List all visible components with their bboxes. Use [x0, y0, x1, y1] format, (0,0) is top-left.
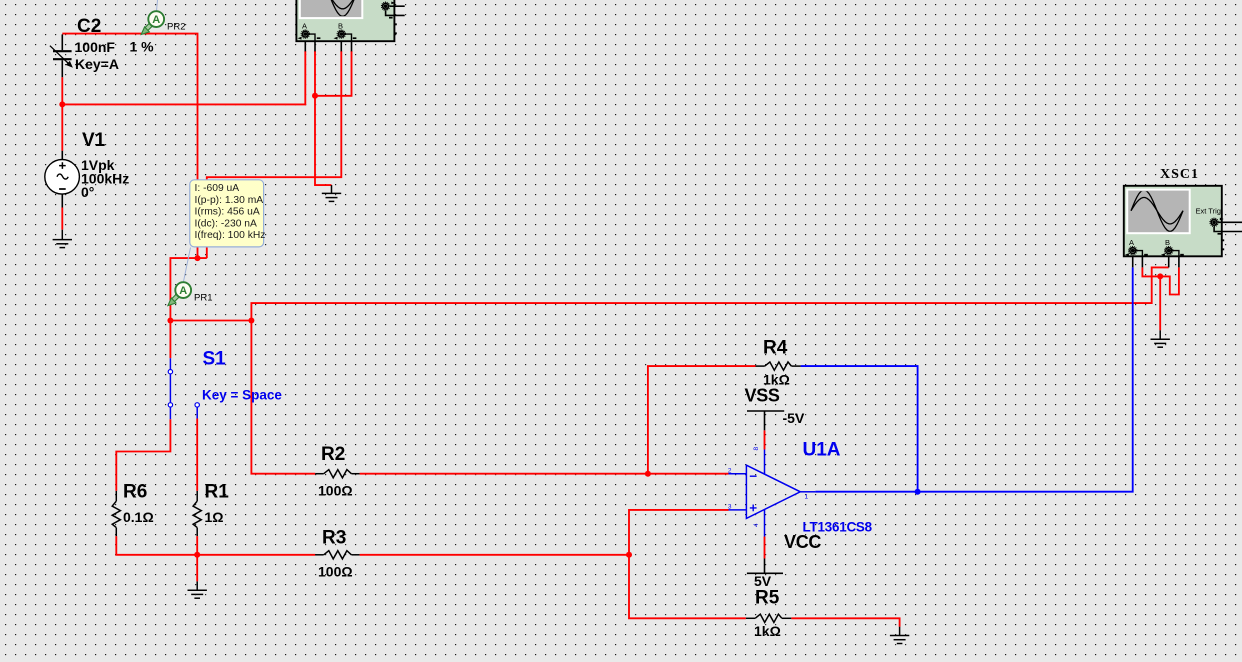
svg-text:3: 3	[728, 504, 732, 511]
svg-text:R6: R6	[123, 481, 147, 502]
svg-text:I(rms): 456 uA: I(rms): 456 uA	[195, 207, 260, 218]
svg-text:100Ω: 100Ω	[318, 563, 353, 579]
svg-text:V1: V1	[82, 130, 106, 151]
svg-text:1Ω: 1Ω	[205, 509, 224, 525]
capacitor C2	[50, 34, 72, 77]
svg-text:R2: R2	[321, 444, 345, 465]
XSC1 terminal B	[1161, 238, 1184, 256]
svg-text:Key = Space: Key = Space	[202, 388, 282, 403]
svg-text:8: 8	[753, 447, 760, 451]
svg-text:R1: R1	[205, 481, 230, 502]
wire XSC1 A- B- tie	[1142, 267, 1179, 294]
capacitor C2 labels	[75, 16, 155, 72]
svg-text:1: 1	[805, 494, 809, 501]
wire S1 right throw to R1	[196, 419, 198, 491]
ground (V1)	[53, 230, 72, 248]
node C2/V1/scope junction	[59, 101, 65, 107]
XSC2 terminal B	[334, 22, 357, 42]
probe PR1 measurement box	[190, 180, 266, 247]
resistor R3	[315, 551, 359, 559]
svg-text:-5V: -5V	[783, 410, 805, 426]
wire XSC1 ground branch	[1159, 276, 1161, 330]
svg-text:A: A	[179, 285, 187, 297]
svg-text:2: 2	[728, 467, 732, 474]
XSC1 pin stubs	[1133, 256, 1179, 267]
svg-text:S1: S1	[203, 348, 227, 369]
wire S1 left throw to R6	[116, 419, 170, 491]
XSC1 terminal A	[1125, 238, 1148, 256]
svg-text:100Ω: 100Ω	[318, 482, 353, 498]
power VSS	[747, 411, 784, 430]
svg-text:B: B	[1165, 238, 1170, 247]
wire long feed to XSC1 B+	[251, 267, 1168, 320]
node op-amp output join (blue)	[915, 489, 921, 495]
node R6/R1 bottom	[194, 552, 200, 558]
probe PR2	[141, 11, 164, 34]
XSC2 pin stubs	[305, 41, 351, 51]
power VCC	[747, 559, 783, 574]
XSC1 right edge nubs	[1222, 240, 1224, 249]
switch S1	[170, 358, 197, 419]
wire R5 to ground	[791, 618, 899, 626]
wire S1 top feed	[169, 321, 171, 359]
oscilloscope XSC1	[1124, 167, 1242, 267]
wire op-amp output to XSC1 A+ (blue)	[815, 267, 1132, 491]
ground (top scope)	[322, 185, 341, 201]
XSC2 terminal A	[298, 22, 321, 42]
resistor R5	[746, 614, 791, 622]
wire node below probe box	[170, 258, 206, 320]
svg-text:XSC1: XSC1	[1160, 167, 1199, 182]
resistor R4	[756, 362, 801, 370]
wire junction row to S1	[170, 320, 251, 322]
source V1 labels	[81, 130, 129, 200]
svg-text:I: -609 uA: I: -609 uA	[195, 183, 240, 194]
wire R3 right	[360, 554, 629, 556]
node below probe box	[195, 255, 201, 261]
XSC1 ext trig terminal	[1210, 218, 1242, 234]
svg-text:100nF: 100nF	[75, 39, 116, 55]
ground (R5)	[890, 627, 909, 644]
probe PR1	[168, 282, 191, 305]
op-amp U1A	[729, 450, 816, 537]
node S1 top left	[167, 318, 173, 324]
svg-text:VSS: VSS	[745, 385, 780, 405]
wire C2 bottom	[61, 77, 63, 104]
wire scope2 A+ to V1 node	[62, 51, 305, 105]
source V1	[45, 151, 80, 208]
wire scope2 B+ return	[207, 51, 341, 258]
wire V1 top	[61, 104, 63, 150]
wire op-amp pin3 to R5	[629, 510, 746, 618]
svg-text:1kΩ: 1kΩ	[754, 623, 781, 639]
svg-text:VCC: VCC	[784, 532, 821, 552]
resistor R1	[193, 491, 201, 536]
svg-text:A: A	[302, 22, 307, 31]
svg-text:0°: 0°	[81, 184, 94, 200]
resistor R2	[315, 470, 359, 478]
svg-text:0.1Ω: 0.1Ω	[123, 509, 154, 525]
svg-text:Ext Trig: Ext Trig	[1196, 206, 1221, 215]
oscilloscope XSC2 (partial, top)	[296, 0, 404, 51]
resistor R6	[112, 491, 120, 536]
svg-text:PR1: PR1	[194, 293, 212, 304]
svg-text:I(dc): -230 nA: I(dc): -230 nA	[195, 218, 258, 229]
op-amp U1A pin numbers	[728, 447, 809, 528]
node R4 left join	[645, 471, 651, 477]
svg-text:I(p-p): 1.30 mA: I(p-p): 1.30 mA	[195, 195, 264, 206]
svg-text:4: 4	[753, 523, 760, 527]
svg-text:R3: R3	[322, 528, 346, 549]
XSC2 ext trig terminal	[381, 2, 404, 18]
wire to R2	[251, 321, 315, 474]
probe PR2 leader	[157, 0, 158, 11]
node XSC1 A- B-	[1157, 273, 1163, 279]
svg-text:A: A	[1129, 238, 1134, 247]
svg-text:PR2: PR2	[167, 21, 185, 32]
svg-text:R5: R5	[755, 588, 780, 609]
svg-text:A: A	[152, 14, 160, 26]
svg-text:I(freq): 100 kHz: I(freq): 100 kHz	[195, 230, 266, 241]
svg-text:Key=A: Key=A	[75, 56, 119, 72]
wire R2 to op-amp pin2	[360, 473, 729, 475]
wire scope2 A- B- tie	[315, 51, 352, 96]
svg-text:R4: R4	[763, 338, 788, 359]
wire R6 R1 bottom node and R3 left	[116, 536, 315, 581]
svg-text:B: B	[338, 22, 343, 31]
wire scope2 A- to ground	[315, 51, 332, 185]
wire R4 right branch (blue)	[801, 366, 918, 492]
wire VSS pin	[764, 430, 766, 449]
svg-text:C2: C2	[77, 16, 101, 37]
wire C2 top to vertical drop	[62, 34, 197, 259]
svg-text:1 %: 1 %	[130, 38, 155, 54]
svg-text:U1A: U1A	[803, 439, 841, 460]
XSC2 right edge nubs	[394, 24, 396, 33]
probe PR1 leader	[184, 248, 191, 282]
node S1 top right	[248, 318, 254, 324]
node scope2 A- B-	[312, 93, 318, 99]
svg-text:5V: 5V	[754, 573, 772, 589]
wire V1 to ground	[61, 208, 63, 230]
ground (R1/R6 node)	[188, 581, 207, 598]
node R3/R5 join	[626, 552, 632, 558]
ground (XSC1)	[1151, 330, 1170, 347]
wire VCC pin	[764, 537, 766, 559]
wire R4 left branch	[648, 366, 756, 474]
